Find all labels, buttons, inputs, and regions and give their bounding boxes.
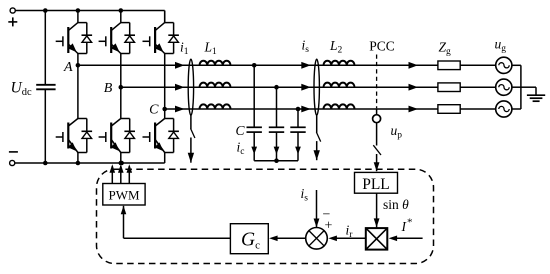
svg-text:PLL: PLL <box>362 176 390 193</box>
svg-text:+: + <box>325 219 333 234</box>
svg-text:PWM: PWM <box>108 188 140 203</box>
svg-text:A: A <box>63 60 73 75</box>
svg-text:sin θ: sin θ <box>383 197 409 212</box>
svg-text:PCC: PCC <box>369 39 395 54</box>
svg-text:C: C <box>149 103 159 118</box>
svg-text:B: B <box>104 81 113 96</box>
svg-text:C: C <box>235 123 245 138</box>
svg-text:*: * <box>407 217 413 229</box>
